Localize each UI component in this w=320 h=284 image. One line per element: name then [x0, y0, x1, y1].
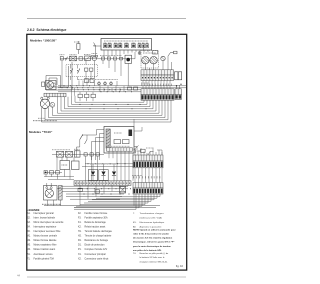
svg-text:aux pôles de la batterie 24V.: aux pôles de la batterie 24V.	[133, 249, 162, 252]
sensor S6	[168, 53, 174, 57]
strip J1 dots	[142, 77, 143, 78]
lamp L3	[110, 82, 113, 85]
svg-text:H2.: H2.	[78, 236, 82, 238]
terminal strip J2 bottom	[141, 94, 174, 100]
A1 pin strip	[107, 148, 133, 151]
svg-text:M4.: M4.	[27, 249, 31, 251]
aux comp B	[95, 190, 100, 193]
svg-text:F3.: F3.	[78, 217, 82, 219]
svg-text:Transformateur chargeur: Transformateur chargeur	[140, 212, 164, 215]
box G2	[72, 161, 80, 170]
lamp L2	[104, 82, 107, 85]
chain3 wire	[44, 171, 62, 173]
bus wires left	[58, 86, 186, 92]
potentiometer P1	[134, 146, 139, 151]
svg-text:44: 44	[17, 274, 21, 278]
svg-text:Résistance de freinage: Résistance de freinage	[85, 239, 109, 242]
routing loop outer	[46, 62, 72, 90]
svg-text:Interrupteur général: Interrupteur général	[34, 212, 55, 215]
J3 feeds	[135, 148, 162, 155]
J3-J4 links	[135, 168, 162, 183]
strip feeds	[143, 81, 170, 89]
fuse F1	[77, 44, 80, 50]
svg-text:M3.: M3.	[27, 245, 31, 247]
bus band drops	[72, 86, 125, 96]
svg-text:Fusible aspirateur 30A: Fusible aspirateur 30A	[85, 216, 108, 219]
relay K1 contacts	[104, 44, 107, 48]
buzzer B1	[138, 52, 141, 55]
left risers	[58, 96, 76, 113]
box G1	[60, 161, 70, 170]
terminal strip J2 top	[141, 89, 174, 95]
relay K4 contacts	[132, 44, 136, 48]
svg-text:Modèles “100/105”: Modèles “100/105”	[30, 39, 57, 43]
tick row 2	[133, 176, 135, 178]
bus junctions	[62, 87, 63, 88]
svg-text:S4.: S4.	[27, 226, 31, 228]
motor M5	[161, 56, 165, 60]
connector X1	[70, 56, 77, 61]
svg-text:(redresseur 24V / 10A): (redresseur 24V / 10A)	[140, 216, 162, 219]
component X4	[153, 51, 158, 55]
svg-text:LEGENDE: LEGENDE	[27, 208, 40, 212]
svg-text:Electrovanne hydraulique: Electrovanne hydraulique	[140, 221, 165, 224]
switch S5 lever	[78, 69, 80, 74]
routing loop inner	[49, 66, 69, 87]
svg-text:X1.: X1.	[78, 254, 82, 256]
svg-text:fig. 10: fig. 10	[176, 264, 184, 268]
svg-text:Témoin de charge batterie: Témoin de charge batterie	[85, 235, 113, 238]
motor M2 hatch	[53, 83, 56, 88]
fuse F5	[50, 171, 54, 174]
aux comp A	[78, 188, 83, 191]
svg-text:Aspirateur à poussière: Aspirateur à poussière	[140, 225, 163, 228]
A1 right leads	[134, 147, 137, 154]
svg-text:H1.: H1.	[78, 231, 82, 233]
relay coil K1	[85, 56, 91, 60]
svg-text:Moteur brosse centrale: Moteur brosse centrale	[34, 235, 58, 238]
fuse F4	[44, 171, 47, 174]
svg-text:Modèles “T/110”: Modèles “T/110”	[29, 130, 53, 134]
svg-text:relier le fils il faut enlever: relier le fils il faut enlever le washer	[133, 233, 169, 236]
svg-text:Témoin batterie déchargée: Témoin batterie déchargée	[85, 230, 113, 233]
wire fan 2	[74, 194, 160, 209]
terminal strip J4 bottom	[133, 188, 163, 194]
bus2 dots	[80, 188, 81, 189]
terminal t3	[114, 57, 117, 60]
group box leads	[71, 71, 92, 80]
motor M6 hatchbar	[59, 186, 63, 201]
aux comp C	[120, 187, 126, 194]
bus extra dots	[78, 89, 79, 90]
motor M1 caption 2	[38, 117, 45, 119]
terminal t1	[102, 57, 105, 60]
switch S4 lever	[71, 69, 73, 74]
fan junction dots	[80, 104, 81, 105]
svg-text:Diode de protection: Diode de protection	[85, 244, 106, 247]
terminal strip J3 bottom	[133, 161, 163, 168]
svg-text:Fusible moteur brosse: Fusible moteur brosse	[85, 212, 108, 215]
mid risers 2	[57, 156, 98, 181]
horn H1	[125, 55, 132, 63]
pump box labels	[143, 52, 156, 54]
tick row	[141, 84, 143, 86]
svg-text:NOTE! Quand on utilise la cart: NOTE! Quand on utilise la cartouche pour	[133, 228, 176, 231]
terminal t4	[120, 57, 123, 60]
terminal strip J1 top	[141, 70, 174, 75]
control unit U1 box	[101, 39, 152, 51]
resistor R2	[134, 87, 138, 90]
pump box dashed	[141, 51, 159, 69]
middle risers	[62, 46, 144, 86]
terminal u3	[96, 153, 99, 156]
svg-text:X2.: X2.	[78, 258, 82, 260]
motor M6	[45, 189, 53, 197]
A1 pin labels	[108, 145, 130, 147]
svg-text:Relais traction avant: Relais traction avant	[85, 225, 106, 228]
svg-text:électronique, relever les pont: électronique, relever les ponts S/T et “…	[133, 241, 175, 244]
chain wire	[60, 58, 135, 60]
svg-text:D1.: D1.	[78, 245, 82, 247]
svg-text:Avertisseur sonore: Avertisseur sonore	[34, 253, 54, 256]
switch group box	[66, 65, 98, 77]
svg-text:Brancher au pôle positif (+) d: Brancher au pôle positif (+) de	[140, 252, 170, 255]
A1 left leads	[83, 130, 105, 161]
switch S1	[60, 57, 63, 60]
switch S3	[79, 57, 83, 60]
chain2 wire	[52, 153, 104, 155]
motor M2 box	[46, 81, 57, 90]
motor M1 leads	[42, 97, 53, 122]
svg-text:la batterie 24 Volts avec le: la batterie 24 Volts avec le	[140, 256, 166, 259]
motor M1 brushes	[41, 97, 43, 99]
svg-text:S1.: S1.	[27, 213, 31, 215]
fuse F6	[56, 171, 60, 174]
fuse F1 label	[74, 41, 80, 43]
terminal strip J1 bottom	[141, 75, 174, 81]
switch S8 lever	[85, 140, 88, 145]
control board A1 box	[104, 127, 134, 154]
terminal u1	[84, 153, 87, 156]
svg-text:AV.: AV.	[133, 225, 137, 228]
A1 dark chip	[129, 130, 133, 137]
motor M1 caption	[33, 120, 57, 122]
relay K5 contacts	[138, 44, 141, 48]
svg-text:2.6.2 Schéma électrique: 2.6.2 Schéma électrique	[27, 28, 67, 32]
wire fan	[42, 100, 172, 122]
motor M3	[142, 57, 149, 64]
diode D1	[88, 170, 97, 181]
motor M6 box	[44, 186, 58, 201]
bus2 drops	[80, 185, 134, 205]
sensor arrow	[147, 152, 154, 157]
motor M2	[47, 82, 54, 89]
svg-text:M1.: M1.	[27, 236, 31, 238]
A1 component a	[114, 140, 121, 144]
terminal u2	[90, 153, 93, 156]
wire U1 feed down	[95, 46, 97, 58]
svg-text:S3.: S3.	[27, 222, 31, 224]
svg-text:K2.: K2.	[78, 226, 82, 228]
terminal strip J4 top	[133, 183, 163, 189]
svg-text:T4.: T4.	[133, 253, 136, 255]
arrow symbol S9	[93, 43, 95, 46]
terminal strip J3 top	[133, 155, 163, 161]
A1 component b	[123, 140, 130, 144]
aux terminals	[175, 72, 178, 80]
motor M6 brushes	[46, 187, 48, 189]
motor M6 leads	[47, 183, 61, 206]
svg-text:Moteur traction avant: Moteur traction avant	[34, 248, 56, 251]
A1 hatched bar	[106, 129, 110, 148]
U1 input wire	[94, 45, 102, 47]
svg-text:K1.: K1.	[78, 222, 82, 224]
left bus wires	[44, 170, 74, 180]
svg-text:Moteur aspirateur filtre: Moteur aspirateur filtre	[34, 244, 58, 247]
X5 dots	[75, 183, 76, 184]
lamp L1	[98, 82, 101, 85]
svg-text:S5.: S5.	[27, 231, 31, 233]
svg-text:R1.: R1.	[78, 240, 82, 242]
svg-text:S2.: S2.	[27, 217, 31, 219]
svg-text:EV.: EV.	[133, 222, 137, 224]
svg-text:Interr. brosse latérale: Interr. brosse latérale	[34, 216, 56, 219]
contact pair	[85, 68, 88, 71]
relay K2 contacts	[114, 44, 117, 48]
aux pair	[85, 79, 89, 83]
svg-text:Interrupteur aspirateur: Interrupteur aspirateur	[34, 225, 57, 228]
svg-text:P1.: P1.	[78, 249, 82, 251]
bus2 wires	[57, 186, 128, 199]
A1 pin drops	[109, 151, 133, 181]
resistor R1	[128, 87, 132, 90]
svg-text:Micro interrupteur de sécurité: Micro interrupteur de sécurité	[34, 221, 65, 224]
bus2 bottom pair	[44, 206, 160, 208]
svg-text:Fusible général 70A: Fusible général 70A	[34, 257, 55, 260]
motor M6 caption	[42, 203, 61, 205]
svg-text:Interrupteur secoueur filtre: Interrupteur secoueur filtre	[34, 230, 62, 233]
U1 output drops	[104, 50, 148, 58]
chain labels	[100, 55, 122, 57]
diode D2	[99, 170, 108, 181]
svg-text:Connecteur carte électr.: Connecteur carte électr.	[85, 257, 110, 260]
relay K3 contacts	[125, 44, 129, 48]
upper lamp row	[79, 81, 117, 86]
relay K6	[75, 151, 81, 157]
chain2 labels	[52, 149, 70, 151]
motor M1	[40, 99, 49, 108]
svg-text:M2.: M2.	[27, 240, 31, 242]
switch S10	[57, 151, 64, 157]
connector X2	[44, 93, 66, 97]
svg-text:F1.: F1.	[27, 258, 31, 260]
comp cluster a	[78, 94, 82, 97]
svg-text:chargeur extérieur SW 24-10.: chargeur extérieur SW 24-10.	[140, 260, 168, 263]
aux piece	[175, 89, 181, 95]
svg-text:pour la carte électronique de: pour la carte électronique de traction	[133, 245, 171, 248]
diode bus a	[85, 163, 133, 165]
svg-text:Compteur horaire 12V: Compteur horaire 12V	[85, 248, 108, 251]
riser right	[134, 119, 162, 155]
motor M4	[150, 57, 157, 64]
main connector X5	[74, 181, 131, 186]
lamp labels	[78, 79, 118, 81]
svg-text:des bornes S-T. En retard la r: des bornes S-T. En retard la régulation	[133, 237, 173, 240]
U1 labels	[104, 40, 148, 42]
motor M1 sensor	[50, 102, 55, 107]
switch S11	[66, 151, 73, 157]
sensor leads	[145, 56, 171, 70]
svg-text:B1.: B1.	[27, 254, 31, 256]
svg-text:Relais de démarrage: Relais de démarrage	[85, 221, 107, 224]
switch S2 lever	[66, 57, 68, 61]
svg-text:Connecteur principal: Connecteur principal	[85, 253, 107, 256]
svg-text:F2.: F2.	[78, 213, 82, 215]
svg-text:Moteur brosse latérale: Moteur brosse latérale	[34, 239, 58, 242]
key switch S0	[92, 57, 96, 61]
diode labels	[90, 163, 116, 165]
comp cluster leads	[80, 92, 93, 101]
switch S7 lever	[80, 135, 83, 140]
diode D3	[113, 164, 115, 171]
terminal t2	[108, 57, 111, 60]
